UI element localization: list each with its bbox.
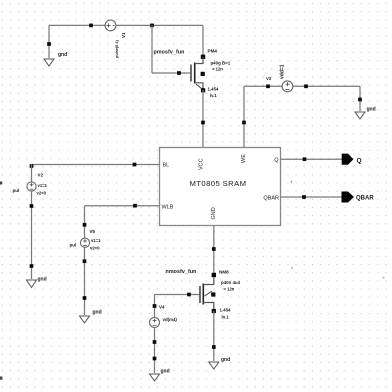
node square bbox=[302, 195, 306, 199]
svg-text:vd(m4): vd(m4) bbox=[163, 317, 178, 322]
node square corner bbox=[150, 24, 154, 28]
svg-text:v1=1: v1=1 bbox=[38, 183, 48, 188]
node square bbox=[242, 121, 246, 125]
svg-text:WLB: WLB bbox=[162, 205, 174, 211]
svg-text:NM8: NM8 bbox=[219, 270, 229, 275]
node square bbox=[304, 84, 308, 88]
svg-text:lv.1: lv.1 bbox=[210, 93, 217, 98]
node square bbox=[358, 98, 362, 102]
node square bbox=[187, 293, 191, 297]
wire vdd rail right bbox=[293, 85, 360, 87]
node square bbox=[153, 340, 157, 344]
voltage source V2 bbox=[27, 182, 36, 191]
wire PM4 drain to chip VCC bbox=[202, 90, 204, 148]
ground top-left bbox=[44, 59, 54, 66]
voltage source V3 bbox=[282, 81, 293, 92]
node square bbox=[153, 304, 157, 308]
svg-text:pulse(0 1): pulse(0 1) bbox=[115, 40, 119, 58]
svg-text:V3: V3 bbox=[266, 76, 272, 81]
export connector QBAR bbox=[342, 192, 354, 203]
svg-text:+: + bbox=[290, 180, 293, 185]
svg-text:Q: Q bbox=[274, 158, 279, 164]
edge artifact left middle bbox=[0, 182, 2, 185]
svg-text:ln.1: ln.1 bbox=[222, 315, 230, 320]
ground right bbox=[355, 112, 365, 119]
node square bbox=[83, 296, 87, 300]
svg-text:pul: pul bbox=[13, 188, 20, 193]
wire down to V5 bbox=[84, 206, 86, 238]
svg-text:V4: V4 bbox=[159, 305, 165, 310]
svg-text:GND: GND bbox=[211, 207, 217, 219]
svg-text:gnd: gnd bbox=[93, 310, 102, 316]
edge artifact left bottom bbox=[0, 377, 2, 380]
ground V5 bbox=[80, 316, 90, 323]
node square bbox=[30, 264, 34, 268]
node square bbox=[212, 345, 216, 349]
wire down to V2 bbox=[31, 165, 33, 183]
wire down to gnd left bbox=[48, 25, 50, 58]
svg-text:MT0805 SRAM: MT0805 SRAM bbox=[190, 179, 247, 188]
wire down to PM4 source bbox=[202, 25, 204, 56]
node square bbox=[133, 163, 137, 167]
svg-text:v2=0: v2=0 bbox=[90, 246, 100, 251]
wire top rail right of V1 bbox=[116, 24, 203, 26]
node square on gate wire bbox=[177, 71, 181, 75]
svg-text:V5: V5 bbox=[90, 229, 96, 234]
wire NM8 gate horizontal bbox=[155, 294, 200, 296]
wire Q output bbox=[281, 158, 343, 160]
svg-text:= 12n: = 12n bbox=[224, 287, 235, 292]
svg-text:BL: BL bbox=[163, 163, 170, 169]
wire down to gnd right bbox=[359, 86, 361, 111]
node square bbox=[212, 247, 216, 251]
wire NM8 drain to gnd bbox=[213, 311, 215, 361]
svg-text:v2=0: v2=0 bbox=[37, 191, 47, 196]
node square bbox=[83, 259, 87, 263]
svg-text:vdd=1: vdd=1 bbox=[280, 64, 286, 79]
wire V1 node down to gate bend bbox=[151, 25, 153, 73]
wire gate horizontal bbox=[152, 72, 190, 74]
svg-text:QBAR: QBAR bbox=[356, 196, 374, 202]
wire BL horizontal bbox=[32, 164, 160, 166]
svg-text:v1=1: v1=1 bbox=[91, 238, 101, 243]
faint speck bbox=[383, 277, 385, 279]
transistor NM8 bbox=[200, 273, 216, 313]
wire top rail left of V1 bbox=[49, 24, 105, 26]
svg-text:gnd: gnd bbox=[38, 277, 47, 283]
voltage source V4 bbox=[150, 318, 160, 328]
svg-text:pul: pul bbox=[70, 243, 77, 248]
svg-text:QBAR: QBAR bbox=[263, 196, 279, 202]
svg-text:p40n 4u4: p40n 4u4 bbox=[221, 280, 241, 285]
node square bbox=[153, 357, 157, 361]
wire V4 to gnd bbox=[154, 328, 156, 374]
svg-text:p40g B=1: p40g B=1 bbox=[211, 61, 231, 66]
node square bbox=[201, 121, 205, 125]
wire chip GND down bbox=[213, 226, 215, 274]
node square bbox=[47, 42, 51, 46]
export connector Q bbox=[342, 154, 354, 165]
svg-text:V2: V2 bbox=[38, 173, 44, 178]
svg-text:gnd: gnd bbox=[367, 107, 376, 113]
faint speck bbox=[291, 267, 293, 269]
chip U1 MT0805 SRAM bbox=[160, 148, 281, 226]
node square corner bbox=[30, 164, 34, 168]
svg-text:gnd: gnd bbox=[221, 357, 230, 363]
svg-text:gnd: gnd bbox=[58, 52, 67, 58]
svg-text:gnd: gnd bbox=[161, 369, 170, 375]
node square bbox=[83, 223, 87, 227]
wire V2 to gnd bbox=[31, 191, 33, 279]
voltage source V5 bbox=[80, 238, 89, 247]
svg-text:Q: Q bbox=[357, 158, 362, 165]
svg-text:PM4: PM4 bbox=[208, 49, 218, 54]
node square bbox=[133, 204, 137, 208]
svg-text:pmosfv_fun: pmosfv_fun bbox=[154, 50, 185, 56]
wire WLB horizontal bbox=[85, 205, 160, 207]
svg-text:= 12n: = 12n bbox=[212, 67, 223, 72]
svg-text:1.454: 1.454 bbox=[208, 87, 220, 92]
wire V5 to gnd bbox=[84, 247, 86, 315]
node square bbox=[303, 157, 307, 161]
svg-text:WE: WE bbox=[241, 154, 247, 163]
voltage source V1 bbox=[105, 20, 116, 31]
wire vdd rail bbox=[244, 85, 282, 87]
ground V2 bbox=[27, 280, 37, 288]
ground NM8 bbox=[209, 362, 219, 369]
node square bbox=[30, 204, 34, 208]
svg-text:V1: V1 bbox=[121, 32, 126, 38]
transistor PM4 bbox=[191, 55, 205, 93]
wire vdd bend down to chip bbox=[243, 86, 245, 147]
svg-text:nmosfv_fun: nmosfv_fun bbox=[166, 269, 197, 275]
svg-text:VCC: VCC bbox=[199, 158, 205, 170]
node square bbox=[266, 84, 270, 88]
wire V4 bend down bbox=[154, 295, 156, 318]
ground V4 bbox=[150, 374, 160, 381]
node square on top rail bbox=[89, 24, 93, 28]
wire QBAR output bbox=[281, 196, 343, 198]
svg-text:1.454: 1.454 bbox=[220, 308, 232, 313]
